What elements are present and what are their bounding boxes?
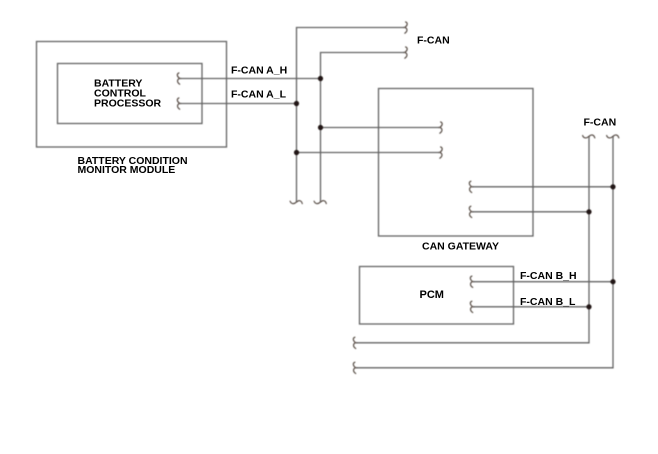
svg-text:F-CAN B_H: F-CAN B_H	[520, 270, 577, 282]
svg-text:F-CAN A_H: F-CAN A_H	[231, 65, 287, 77]
svg-text:F-CAN: F-CAN	[584, 117, 617, 129]
svg-text:F-CAN: F-CAN	[417, 35, 450, 47]
svg-text:F-CAN B_L: F-CAN B_L	[520, 296, 576, 308]
svg-text:PROCESSOR: PROCESSOR	[94, 98, 162, 110]
svg-text:MONITOR MODULE: MONITOR MODULE	[78, 164, 176, 176]
svg-text:CAN GATEWAY: CAN GATEWAY	[422, 241, 499, 253]
svg-text:F-CAN A_L: F-CAN A_L	[231, 89, 287, 101]
svg-text:PCM: PCM	[420, 289, 444, 301]
